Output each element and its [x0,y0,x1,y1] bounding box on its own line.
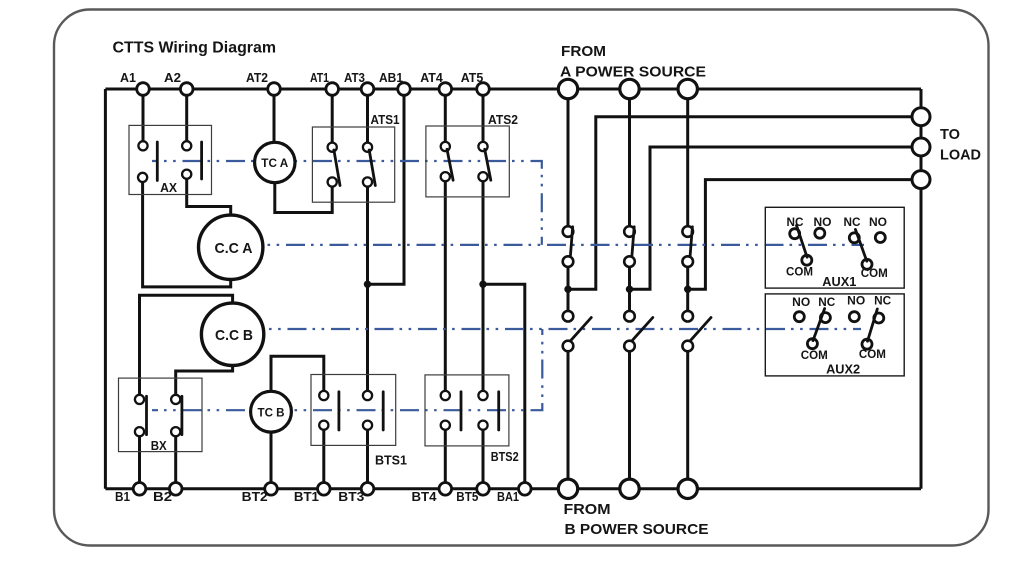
BTS2 contact pin bottom-right [478,421,487,430]
BX contact bar left [145,396,148,434]
terminal BT5 [477,483,490,496]
AUX2 blade right NC-COM [868,309,878,341]
wire AT2 to TC A [273,89,276,143]
AUX1 blade left NC-COM [797,226,808,258]
BTS2 contact bar right [497,392,500,430]
AX contact pin bottom-right [182,170,191,179]
svg-text:NC: NC [818,297,835,309]
wire BTS1 bottom-left to BT1 [322,424,325,489]
phase 3 upper contact pin b [682,256,693,267]
blue control line C.C B to AUX2 [264,328,861,330]
BTS1 contact pin bottom-right [363,421,372,430]
AUX2 blade left NC-COM [813,309,825,341]
svg-text:B2: B2 [153,489,172,504]
AX contact pin top-left [138,141,147,150]
svg-text:AT2: AT2 [246,70,268,85]
BX contact pin top-left [135,395,144,404]
coil C.C B [201,303,263,365]
junction dot phase 1 load branch [564,286,571,293]
svg-text:A2: A2 [164,70,181,85]
AUX1 pin COM right [862,259,872,269]
ATS2 contact pin bottom-left [441,172,450,181]
wire phase 3 branch to load line 3 [688,180,913,290]
terminal BT3 [361,483,374,496]
svg-text:BT4: BT4 [412,489,438,504]
junction dot ATS2-BA1 [479,281,486,288]
phase 1 closed blade [570,227,572,256]
terminal AT2 [268,83,281,96]
terminal BT4 [439,483,452,496]
terminal source B phase 1 [558,479,577,498]
svg-text:BA1: BA1 [497,489,519,504]
wire ATS1 bottom-right to BTS1 top-right [366,182,369,398]
svg-text:C.C A: C.C A [215,240,253,257]
wire phase 1 branch to load line 1 [568,117,912,290]
terminal AT3 [361,83,374,96]
wire A2 to AX top-right [185,89,188,146]
svg-text:NO: NO [814,217,832,229]
svg-text:AT5: AT5 [461,70,484,85]
svg-text:TC B: TC B [258,406,285,420]
svg-text:BT2: BT2 [242,489,268,504]
terminal A2 [180,83,193,96]
AX contact pin bottom-left [138,173,147,182]
ATS1 contact pin top-right [363,143,372,152]
phase 1 open blade [571,318,592,341]
BTS1 contact pin bottom-left [319,421,328,430]
wire source A phase 3 middle [686,262,689,317]
AUX1 pin NO left [815,228,825,238]
wire ATS2 bottom-right to BTS2 top-right [482,177,485,398]
AX contact bar left [156,142,159,181]
BTS1 contact bar left [337,392,340,430]
ATS2 blade right [485,149,491,180]
ATS1 contact pin top-left [328,143,337,152]
wire AT3 to ATS1 top-right [366,89,369,147]
wire source A phase 1 middle [567,262,570,317]
ATS1 blade left [334,150,340,186]
phase 3 upper contact pin a [682,226,693,237]
wire bottom bus [105,487,921,490]
phase 3 lower contact pin a [682,311,693,322]
svg-text:AX: AX [160,180,177,195]
wire to-load right bus [920,89,923,489]
wire source A phase 2 middle [628,262,631,317]
wire source A phase 3 upper [686,89,689,232]
svg-text:BTS2: BTS2 [491,449,519,464]
phase 2 closed blade [632,227,634,256]
wire BX bottom-left to B1 [138,432,141,489]
ATS2 blade left [447,149,453,180]
wire source A phase 1 upper [567,89,570,232]
AUX2 pin COM right [862,339,872,349]
terminal B1 [133,483,146,496]
BX contact pin bottom-right [171,427,180,436]
wire source A phase 1 lower [567,346,570,489]
svg-text:BT5: BT5 [456,489,478,504]
wire junction to AB1 terminal [368,89,405,284]
blue control line TC A [152,161,542,245]
terminal BA1 [519,483,532,496]
svg-text:TC A: TC A [261,156,288,170]
relay box AX [129,125,212,194]
AUX1 pin NC right [849,233,859,243]
AX contact bar right [200,142,203,179]
phase 3 lower contact pin b [682,341,693,352]
terminal source B phase 3 [678,479,697,498]
BX contact pin bottom-left [135,427,144,436]
phase 2 open blade [632,318,653,341]
terminal load 3 [912,171,930,189]
wire A1 to AX top-left [142,89,145,146]
svg-text:NO: NO [847,296,865,308]
svg-text:NO: NO [869,217,887,229]
terminal AT5 [477,83,490,96]
svg-text:AT3: AT3 [344,70,365,85]
wire TC B top to BTS1 top-left [271,356,324,397]
phase 1 lower contact pin a [563,311,574,322]
svg-text:ATS1: ATS1 [371,112,400,127]
phase 1 lower contact pin b [563,341,574,352]
svg-text:NO: NO [792,297,810,309]
wire source A phase 2 upper [628,89,631,232]
BTS2 contact pin bottom-left [441,421,450,430]
relay box BX [119,378,203,452]
wire top bus [105,88,921,91]
phase 2 lower contact pin a [624,311,635,322]
terminal AT1 [326,83,339,96]
terminal source B phase 2 [620,479,639,498]
terminal source A phase 1 [558,79,577,98]
wire source A phase 2 lower [628,346,631,489]
terminal load 2 [912,138,930,156]
coil TC A [255,142,295,182]
svg-text:A1: A1 [120,70,136,85]
wire C.C A bottom to AX bottom-left [143,177,231,287]
ATS1 contact pin bottom-left [328,177,337,186]
svg-text:AT1: AT1 [310,70,329,85]
ATS2 contact pin top-left [441,142,450,151]
junction dot phase 2 load branch [626,286,633,293]
svg-text:NC: NC [874,296,891,308]
BTS2 contact pin top-left [441,391,450,400]
svg-text:NC: NC [844,217,861,229]
AX contact pin top-right [182,141,191,150]
phase 1 upper contact pin a [563,226,574,237]
aux contact box AUX2 [765,294,904,376]
ATS2 contact pin top-right [478,142,487,151]
ATS1 contact pin bottom-right [363,177,372,186]
contactor box BTS1 [311,375,396,446]
wire BX bottom-right to B2 [174,432,177,489]
ATS1 blade right [369,150,375,186]
svg-text:COM: COM [786,267,813,279]
wire TC B bottom to BT2 [270,431,273,489]
svg-text:AUX2: AUX2 [826,362,860,377]
phase 2 lower contact pin b [624,341,635,352]
svg-text:C.C B: C.C B [215,327,253,344]
wire left border bus [104,89,107,489]
AUX2 pin NO right [849,312,859,322]
BTS2 contact bar left [460,392,463,430]
junction dot phase 3 load branch [684,286,691,293]
svg-text:LOAD: LOAD [940,147,981,164]
terminal source A phase 2 [620,79,639,98]
coil TC B [251,391,292,432]
BX contact bar right [180,396,183,434]
svg-text:TO: TO [940,126,960,143]
svg-text:BT3: BT3 [338,489,364,504]
wire junction to BA1 terminal [483,284,525,489]
wire phase 2 branch to load line 2 [630,147,913,289]
terminal BT2 [265,483,278,496]
terminal source A phase 3 [678,79,697,98]
terminal B2 [169,483,182,496]
AUX2 pin NO left [794,312,804,322]
AUX1 blade right NC-COM [855,229,866,261]
BTS2 contact pin top-right [478,391,487,400]
wire C.C B top to BX top-left [140,295,233,399]
wire AT5 to ATS2 top-right [482,89,485,147]
svg-text:B POWER SOURCE: B POWER SOURCE [565,521,709,538]
aux contact box AUX1 [765,207,904,288]
phase 3 closed blade [690,227,692,256]
wire BTS1 bottom-right to BT3 [366,424,369,489]
BTS1 contact pin top-left [319,391,328,400]
phase 2 upper contact pin b [624,256,635,267]
contactor box ATS2 [426,126,509,197]
wire AT1 to ATS1 top-left [331,89,334,147]
wire AT4 to ATS2 top-left [444,89,447,147]
svg-text:CTTS Wiring Diagram: CTTS Wiring Diagram [113,40,277,57]
wire source A phase 3 lower [686,346,689,489]
terminal load 1 [912,108,930,126]
svg-text:FROM: FROM [564,501,611,518]
svg-text:AT4: AT4 [420,70,443,85]
terminal A1 [137,83,150,96]
junction dot ATS1-AB1 [364,281,371,288]
svg-text:A POWER SOURCE: A POWER SOURCE [560,64,706,81]
svg-text:BTS1: BTS1 [375,453,407,468]
phase 2 upper contact pin a [624,226,635,237]
phase 3 open blade [691,318,712,341]
svg-text:COM: COM [801,350,828,362]
contactor box BTS2 [425,375,509,446]
blue control line C.C A to AUX1 [263,244,865,246]
wire ATS2 bottom-left to BTS2 top-left [444,177,447,398]
BX contact pin top-right [171,395,180,404]
wire AX bottom-right to C.C A top [187,174,231,215]
ATS2 contact pin bottom-right [478,172,487,181]
terminal AB1 [398,83,411,96]
BTS1 contact bar right [382,392,385,430]
svg-text:COM: COM [859,349,886,361]
svg-text:COM: COM [861,268,888,280]
AUX2 pin NC left [820,313,830,323]
AUX2 pin COM left [807,339,817,349]
svg-text:NC: NC [787,217,804,229]
wire TC A bottom to ATS1 bottom-left [275,182,332,213]
svg-text:B1: B1 [115,489,130,504]
terminal BT1 [318,483,331,496]
BTS1 contact pin top-right [363,391,372,400]
AUX1 pin COM left [802,255,812,265]
blue control line TC B [152,329,542,410]
svg-text:AUX1: AUX1 [822,274,856,289]
svg-text:AB1: AB1 [379,70,403,85]
svg-text:ATS2: ATS2 [488,112,518,127]
AUX2 pin NC right [874,313,884,323]
wire BTS2 bottom-right to BT5 [482,424,485,489]
svg-text:FROM: FROM [561,43,606,60]
coil C.C A [199,215,263,279]
terminal AT4 [439,83,452,96]
svg-text:BX: BX [151,438,167,453]
AUX1 pin NC left [790,229,800,239]
wire C.C B bottom to BX top-right [176,366,233,400]
wire BTS2 bottom-left to BT4 [444,424,447,489]
AUX1 pin NO right [875,233,885,243]
svg-text:BT1: BT1 [294,489,319,504]
phase 1 upper contact pin b [563,256,574,267]
contactor box ATS1 [312,127,394,202]
